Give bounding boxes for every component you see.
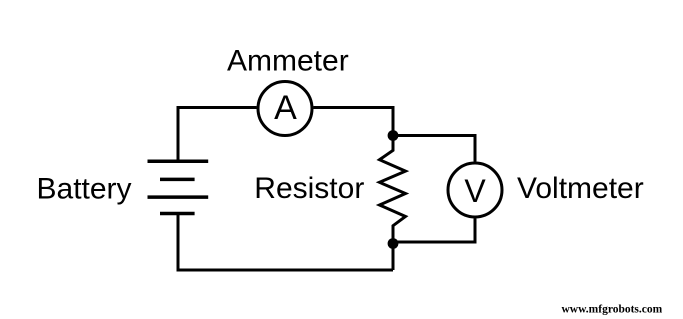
battery B1 plate long lower [148, 195, 209, 199]
svg-text:Ammeter: Ammeter [227, 44, 349, 77]
wire right vertical lower [392, 244, 395, 271]
wire top rail left segment [178, 108, 257, 162]
wire top rail right segment [313, 108, 393, 136]
svg-text:A: A [274, 89, 297, 127]
voltmeter V1 circle [448, 163, 502, 217]
svg-text:Voltmeter: Voltmeter [517, 172, 644, 205]
wire voltmeter branch top [393, 136, 475, 162]
svg-text:Battery: Battery [37, 173, 132, 206]
battery B1 plate long top [148, 160, 209, 164]
resistor R1 zigzag [380, 136, 406, 244]
node junction top [388, 130, 399, 141]
svg-text:Resistor: Resistor [254, 172, 364, 205]
wire left vertical lower and bottom rail [178, 214, 393, 271]
svg-text:www.mfgrobots.com: www.mfgrobots.com [562, 303, 663, 315]
wire voltmeter branch bottom [393, 219, 475, 243]
battery B1 plate short bottom [160, 212, 195, 216]
ammeter A1 circle [258, 82, 312, 136]
node junction bottom [388, 238, 399, 249]
battery B1 plate short upper [160, 178, 195, 182]
svg-text:V: V [464, 173, 486, 209]
